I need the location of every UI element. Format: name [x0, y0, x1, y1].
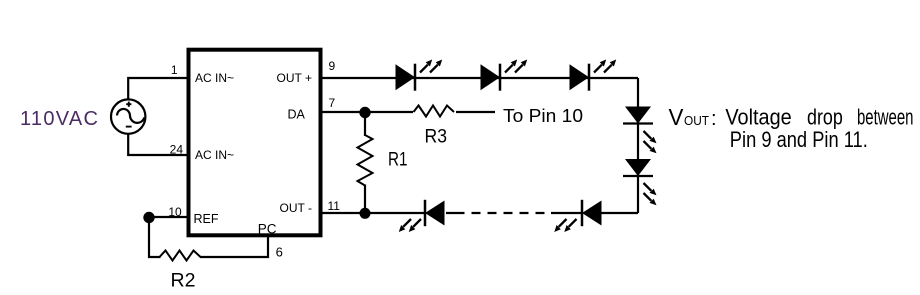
svg-text::: : — [711, 108, 717, 130]
svg-text:7: 7 — [329, 96, 336, 110]
svg-text:11: 11 — [328, 199, 341, 213]
svg-text:V: V — [669, 104, 685, 130]
svg-text:OUT: OUT — [684, 113, 709, 128]
svg-text:9: 9 — [329, 59, 336, 73]
svg-text:110VAC: 110VAC — [20, 108, 98, 130]
svg-text:10: 10 — [168, 205, 182, 219]
svg-text:R3: R3 — [425, 127, 448, 148]
svg-text:Pin 9 and Pin 11.: Pin 9 and Pin 11. — [730, 127, 868, 152]
svg-text:6: 6 — [276, 245, 283, 260]
svg-text:between: between — [857, 105, 914, 130]
svg-text:PC: PC — [258, 222, 277, 237]
svg-text:24: 24 — [170, 143, 184, 157]
svg-text:To Pin 10: To Pin 10 — [503, 106, 583, 126]
svg-text:1: 1 — [171, 63, 178, 77]
svg-text:drop: drop — [807, 105, 843, 130]
svg-text:OUT -: OUT - — [280, 201, 312, 215]
svg-text:AC IN~: AC IN~ — [195, 71, 234, 85]
svg-text:REF: REF — [194, 212, 219, 226]
svg-text:OUT +: OUT + — [277, 71, 312, 85]
svg-text:Voltage: Voltage — [725, 105, 791, 130]
svg-text:R2: R2 — [171, 271, 196, 292]
svg-text:DA: DA — [288, 108, 306, 122]
svg-text:R1: R1 — [388, 150, 408, 171]
svg-text:AC IN~: AC IN~ — [195, 148, 234, 162]
